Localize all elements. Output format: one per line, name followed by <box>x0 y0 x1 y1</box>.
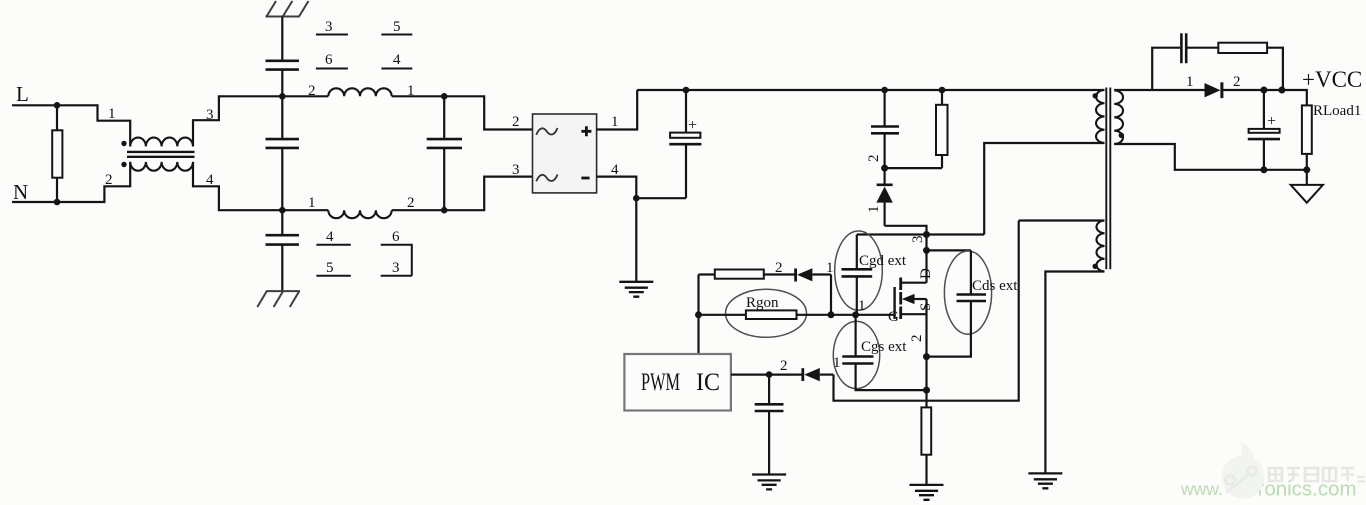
wire rail node to C3 <box>281 210 283 235</box>
wire drain node to Cds <box>927 249 971 251</box>
resistor R7 output snubber <box>1218 43 1267 53</box>
phase dot T2 primary <box>1093 93 1098 98</box>
inductor choke L3 bottom <box>328 210 391 218</box>
capacitor C3 Y-cap bottom <box>266 235 299 244</box>
svg-text:+: + <box>1267 113 1276 130</box>
wire to bridge pin 2 <box>444 96 532 129</box>
capacitor C5 bulk electrolytic <box>685 90 687 132</box>
wire L input <box>12 104 57 106</box>
chassis ground bottom <box>257 291 300 307</box>
wire drain node to mosfet <box>925 250 927 282</box>
wire pin1 to choke T1 <box>57 105 130 146</box>
bridge AC symbol bottom <box>536 175 557 182</box>
capacitor C2 X-cap left <box>266 139 299 148</box>
wire D2 down to gate node <box>830 275 832 315</box>
junction rail bottom <box>279 207 286 214</box>
junction L <box>54 102 61 109</box>
capacitor C4 X-cap mid <box>443 96 445 210</box>
svg-text:+: + <box>688 117 697 134</box>
bridge rectifier U1 body <box>533 114 597 193</box>
wire T2 primary bottom handled above <box>1103 142 1105 144</box>
capacitor C6 snubber <box>883 90 885 127</box>
svg-text:2: 2 <box>780 358 788 374</box>
wire ground top to C1 <box>281 17 283 61</box>
ellipse Cgd ext <box>835 231 883 310</box>
junction snubber resistor top <box>939 87 946 94</box>
svg-text:1: 1 <box>611 114 619 130</box>
svg-text:1: 1 <box>866 206 882 214</box>
wire C1 to rail node <box>281 70 283 97</box>
svg-text:2: 2 <box>512 114 520 130</box>
junction drain upper <box>923 231 930 238</box>
capacitor C7 Cgd ext <box>856 235 858 270</box>
junction gate left <box>828 311 835 318</box>
transformer T1 bottom winding <box>130 162 193 171</box>
wire to bridge pin 3 <box>444 177 532 211</box>
capacitor C11 output electrolytic <box>1263 90 1265 128</box>
svg-text:1: 1 <box>108 106 116 122</box>
wire C3 to chassis ground bottom <box>281 245 283 292</box>
wire secondary top lead <box>1114 89 1204 91</box>
svg-text:G: G <box>888 309 899 325</box>
junction X-cap top <box>441 93 448 100</box>
wire secondary bottom lead <box>1114 144 1307 170</box>
svg-text:ronics.com: ronics.com <box>1258 478 1357 501</box>
junction gate mid <box>852 311 859 318</box>
svg-text:6: 6 <box>325 52 333 68</box>
junction bottom rload <box>1303 166 1310 173</box>
wire drain horizontal to primary <box>857 233 984 235</box>
wire rail to choke L3 <box>282 209 328 211</box>
svg-text:www.: www. <box>1180 479 1223 499</box>
svg-text:1: 1 <box>826 260 834 276</box>
mosfet Q1 channel segments <box>899 278 902 320</box>
svg-text:2: 2 <box>866 155 882 163</box>
wire negative node to bulk cap <box>636 197 686 199</box>
phase dot T2 aux <box>1093 264 1098 269</box>
svg-text:Cgd ext: Cgd ext <box>859 253 907 269</box>
ground triangle output <box>1306 170 1308 185</box>
wire source down <box>925 299 927 407</box>
svg-text:3: 3 <box>392 260 400 276</box>
svg-text:6: 6 <box>392 229 400 245</box>
wire choke T1 pin4 to rail <box>193 162 282 210</box>
junction bus negative <box>633 195 640 202</box>
svg-text:2: 2 <box>775 260 783 276</box>
svg-text:PWM: PWM <box>641 369 680 396</box>
phase dot T1 top <box>121 141 126 146</box>
transformer T2 aux winding <box>1096 221 1104 272</box>
mosfet Q1 body arrow <box>914 298 927 300</box>
resistor R2 snubber <box>885 90 942 168</box>
svg-text:3: 3 <box>910 236 926 244</box>
junction PWM output <box>766 371 773 378</box>
resistor R4 Rgon <box>746 310 797 319</box>
inductor choke L2 top <box>328 88 391 96</box>
wire choke L2 to X-cap node <box>392 95 445 97</box>
junction rail top <box>279 93 286 100</box>
wire PWM output <box>731 374 802 376</box>
svg-text:1: 1 <box>858 298 866 314</box>
earth ground G4 <box>1028 473 1062 488</box>
ellipse Cds ext <box>944 251 991 334</box>
wire bridge pin4 to gnd node <box>597 177 637 199</box>
junction X-cap bottom <box>441 207 448 214</box>
earth ground G2 <box>752 475 786 490</box>
svg-text:IC: IC <box>696 369 720 396</box>
capacitor C1 Y-cap top <box>266 61 299 70</box>
transformer T1 core <box>127 152 195 157</box>
svg-text:1: 1 <box>833 355 841 371</box>
capacitor C8 Cds ext <box>970 250 972 294</box>
transformer T1 common-mode choke top winding <box>130 138 193 147</box>
wire rail to choke L2 <box>282 95 328 97</box>
mosfet Q1 drain lead <box>901 282 927 284</box>
svg-text:+VCC: +VCC <box>1302 67 1362 92</box>
watermark chinese text blocks <box>1269 468 1365 482</box>
mosfet Q1 source lead <box>901 313 927 315</box>
wire C2 to bottom rail node <box>281 148 283 210</box>
wire output snubber loop <box>1152 48 1283 90</box>
phase dot T1 bottom <box>121 162 126 167</box>
earth ground G1 <box>619 282 653 297</box>
wire N input <box>12 201 57 203</box>
svg-text:5: 5 <box>393 19 401 35</box>
wire DC bus top rail <box>637 89 1104 91</box>
wire gate <box>699 314 895 316</box>
junction source Cds <box>923 353 930 360</box>
svg-text:Cds ext: Cds ext <box>972 278 1018 294</box>
junction PWM top branch <box>697 275 699 355</box>
wire aux bottom to ground <box>1045 272 1104 474</box>
svg-text:4: 4 <box>393 52 401 68</box>
phase dot T2 secondary <box>1119 133 1124 138</box>
transformer T2 primary winding <box>1096 90 1104 143</box>
wire bridge pin1 to DC bus <box>597 90 638 130</box>
svg-text:N: N <box>13 180 28 204</box>
resistor fuse R1 <box>56 105 58 202</box>
diode D1 clamp <box>883 168 885 185</box>
wire rail to C2 <box>281 96 283 139</box>
svg-text:4: 4 <box>326 229 334 245</box>
junction snubber return <box>1278 87 1285 94</box>
svg-text:Cgs ext: Cgs ext <box>861 339 907 355</box>
wire negative node to earth <box>635 198 637 282</box>
svg-text:3: 3 <box>512 162 520 178</box>
svg-text:3: 3 <box>325 19 333 35</box>
ellipse Cgs ext <box>833 321 879 388</box>
watermark logo leaf <box>1222 442 1265 499</box>
junction source Cgs <box>923 387 930 394</box>
capacitor C10 PWM <box>768 375 770 404</box>
junction drain lower <box>923 247 930 254</box>
wire diode D1 to drain node <box>885 226 927 235</box>
mosfet Q1 gate bar <box>893 287 895 319</box>
bridge AC symbol top <box>536 128 557 135</box>
svg-text:Rgon: Rgon <box>746 295 779 311</box>
wire primary return <box>984 143 1104 235</box>
resistor R5 source <box>921 407 931 454</box>
wire gate return to aux winding <box>834 221 1019 401</box>
PWM IC box U2 <box>624 354 731 411</box>
svg-text:2: 2 <box>407 195 415 211</box>
wire gate drive branch upper <box>699 273 796 275</box>
junction N <box>54 199 61 206</box>
wire aux top lead <box>1019 219 1105 221</box>
svg-text:L: L <box>16 82 29 106</box>
wire choke T1 pin2 to N <box>57 162 130 202</box>
ellipse Rgon <box>726 289 807 337</box>
svg-text:2: 2 <box>1233 74 1241 90</box>
diode D4 output <box>1205 83 1221 97</box>
svg-text:1: 1 <box>308 195 316 211</box>
bridge plus symbol <box>581 126 591 136</box>
transformer T2 secondary winding <box>1114 91 1123 145</box>
resistor R6 RLoad1 <box>1302 105 1312 153</box>
junction output cap <box>1260 87 1267 94</box>
svg-text:2: 2 <box>909 335 925 343</box>
wire drain to lower node <box>925 235 927 251</box>
svg-text:5: 5 <box>326 260 334 276</box>
capacitor C9 Cgs ext <box>854 315 856 357</box>
svg-text:1: 1 <box>1186 74 1194 90</box>
earth ground G3 <box>910 485 944 500</box>
capacitor C12 output snubber <box>1181 33 1186 63</box>
junction bottom cap <box>1260 166 1267 173</box>
svg-text:D: D <box>918 268 934 279</box>
transformer T2 core <box>1106 88 1110 270</box>
wire choke T1 pin3 to rail <box>193 96 282 146</box>
chassis ground top <box>266 1 309 17</box>
junction snubber node <box>881 165 888 172</box>
diode D3 <box>801 368 804 381</box>
svg-text:RLoad1: RLoad1 <box>1313 103 1361 119</box>
junction bulk cap top <box>683 87 690 94</box>
resistor R3 gate drive <box>715 270 764 279</box>
junction snubber cap top <box>881 87 888 94</box>
bridge minus symbol <box>581 177 589 180</box>
wire choke L3 to X-cap node <box>392 209 445 211</box>
diode D2 <box>794 269 797 282</box>
wire output node <box>1222 90 1307 105</box>
